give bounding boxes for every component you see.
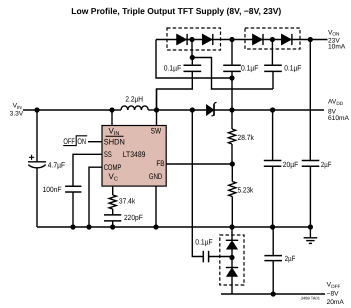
IC U1 LT3489 body [102,126,166,187]
wire C4 bottom lead [272,71,274,89]
wire 5.23k to ground rail [231,197,233,228]
resistor R1 28.7k [228,129,235,144]
junction dot VON node [308,37,313,42]
wire AVDD junction down to 28.7k [231,110,233,129]
svg-text:5.23k: 5.23k [238,185,254,194]
svg-text:SW: SW [151,126,162,135]
svg-text:0.1µF: 0.1µF [164,63,182,72]
junction dot schottky anode [190,107,195,112]
wire C3 bottom lead to AVDD [231,71,233,110]
junction dot top rail / C3 [229,37,234,42]
wire 100nF to ground rail [72,192,74,227]
svg-text:3.3V: 3.3V [10,111,24,118]
dashed box dual diode D3/D4 [245,28,300,49]
node SW junction dot [154,107,159,112]
pin SHDN label with overline [106,135,124,137]
wire AVDD rail [214,109,324,111]
wire SW rail to schottky [157,109,207,111]
svg-text:LT3489: LT3489 [123,150,146,159]
svg-text:Low Profile, Triple Output TFT: Low Profile, Triple Output TFT Supply (8… [71,6,281,16]
svg-text:−8V: −8V [327,290,340,297]
wire R3 to 220pF [112,209,114,215]
wire SW pin stub [156,89,158,126]
diode D1 [177,34,187,45]
junction dot 100nF/gnd [70,224,75,229]
node OFF/ON shutdown control [63,136,87,146]
junction dot GND pin/gnd rail [153,224,158,229]
wire AVDD junction down to 20uF [272,110,274,160]
wire C2 bottom jog to SW [157,71,193,110]
junction dot divider/gnd rail [229,224,234,229]
wire inductor left [112,109,121,111]
ground [304,227,318,243]
junction dot COMP/gnd [86,224,91,229]
wire SHDN [88,141,102,143]
svg-text:4.7µF: 4.7µF [48,160,66,169]
junction dot D1/D2 [189,37,194,42]
svg-text:OFF: OFF [63,137,75,146]
capacitor 220pF [104,215,121,221]
wire D7 to VOFF rail [221,277,325,295]
wire C1 to ground rail [36,168,38,227]
wire VC pin stub [112,186,114,195]
wire gnd rail into D6 [231,227,233,240]
svg-text:28.7k: 28.7k [238,133,254,142]
junction dot AVDD/20uF [270,107,275,112]
node VIN junction dot [34,107,39,112]
dashed box dual diode D1/D2 [167,28,221,50]
wire VIN to inductor [23,109,112,111]
svg-text:0.1µF: 0.1µF [284,63,302,72]
svg-text:2µF: 2µF [285,254,296,263]
wire C2 top lead [191,58,193,66]
wire SS to 100nF [73,154,102,186]
capacitor C1 4.7uF polarized [28,162,46,168]
svg-text:COMP: COMP [104,163,122,172]
wire D6 to D7 [231,249,233,267]
junction dot FB node [230,161,235,166]
junction dot AVDD/divider [229,107,234,112]
wire AVDD feed up-left (D1 anode to y78 run) [156,40,232,79]
diode D7 [226,267,238,269]
junction dot C8/VOFF rail [271,291,276,296]
wire GND pin stub [155,186,157,227]
node VIN label [10,103,24,118]
wire VON column down to 2uF [309,40,311,161]
wire top rail (charge pump diode chain) [156,39,328,41]
wire COMP to ground rail [89,167,102,227]
wire C3 top lead [231,40,233,66]
diode D2 [202,34,212,45]
junction dot D3/D4 [270,37,275,42]
svg-text:SS: SS [104,150,112,159]
wire D1/D2 junction down to n1 node [191,40,193,58]
junction dot n1 [190,55,195,60]
svg-text:610mA: 610mA [328,115,349,122]
junction dot 20uF/gnd [270,224,275,229]
node VOFF label [327,282,345,306]
junction dot VOFF pump midpoint [229,255,234,260]
diode D6 [226,239,238,241]
resistor R3 37.4k [109,195,116,209]
resistor R2 5.23k [229,182,236,197]
svg-text:ON: ON [77,137,86,146]
svg-text:220pF: 220pF [124,213,143,222]
svg-text:3489 TA01: 3489 TA01 [301,296,321,301]
svg-text:SHDN: SHDN [104,137,125,146]
wire C8 to VOFF rail [272,261,274,294]
node VON label [328,29,346,50]
junction dot VIN pin [109,107,114,112]
capacitor C7 2uF (VON output cap) [302,161,320,167]
svg-text:GND: GND [149,172,163,181]
capacitor C4 0.1uF (second flying cap) [264,65,282,71]
wire 28.7k to FB node [231,144,233,164]
wire 2uF to ground [309,166,311,227]
svg-text:0.1µF: 0.1µF [195,238,213,247]
dashed box dual diode D6/D7 [220,235,244,285]
capacitor C8 2uF (VOFF output cap) [272,227,274,255]
svg-text:2.2µH: 2.2µH [125,94,143,103]
diode D4 [281,34,291,45]
wire VIN junction down to C1 [36,110,38,162]
wire 220pF to ground rail [112,221,114,227]
wire VIN pin stub [111,110,113,126]
junction dot C3/y78 run [229,75,234,80]
svg-text:10mA: 10mA [328,44,346,51]
svg-text:FB: FB [156,159,164,168]
svg-text:0.1µF: 0.1µF [241,63,259,72]
wire FB from pin to divider [166,163,232,165]
wire C4 top lead [271,40,273,66]
wire 20uF to ground rail [272,166,274,227]
diode D3 [252,34,262,45]
svg-text:37.4k: 37.4k [119,196,135,205]
capacitor C5 20uF (AVDD output cap) [264,161,282,167]
wire ground rail [37,226,310,228]
junction dot VC string/gnd [110,224,115,229]
svg-text:100nF: 100nF [43,185,62,194]
wire SW column down to VOFF pump [192,110,203,257]
wire inductor right to SW node [148,109,156,111]
wire FB node to 5.23k [231,164,233,182]
svg-text:20mA: 20mA [327,299,345,306]
diode D5 schottky [206,103,216,116]
junction dot 2uF/gnd [308,224,313,229]
node AVDD label [328,99,349,122]
svg-text:2µF: 2µF [321,160,332,169]
capacitor C3 0.1uF (hold cap) [223,65,241,71]
svg-text:20µF: 20µF [283,160,299,169]
wire n1 right and down (to C4 bottom run) [192,58,273,90]
wire C6 to diode midpoint [209,256,232,258]
